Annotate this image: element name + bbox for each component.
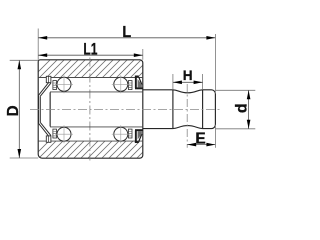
shaft bore surface bottom	[50, 126, 143, 128]
horizontal centerline	[30, 108, 221, 110]
stud shaft bottom line	[143, 128, 173, 130]
left end washer top anchor	[46, 76, 51, 82]
outer ring outline	[38, 60, 143, 158]
dimension L	[38, 37, 215, 39]
extension lines D	[10, 59, 39, 61]
outer ring raceway surface bottom	[38, 140, 142, 142]
seal spacer bottom-right	[128, 129, 132, 138]
svg-text:H: H	[183, 68, 193, 83]
dimension E	[187, 144, 215, 146]
groove vertical centerline	[186, 84, 188, 148]
seal spacer top-left	[53, 81, 57, 90]
roller cap boundary	[202, 90, 204, 129]
roller end cap	[203, 90, 216, 129]
svg-text:E: E	[195, 130, 205, 147]
ball top-left	[57, 77, 71, 91]
shaft bore surface top	[50, 91, 143, 93]
ball bottom-right	[114, 127, 128, 141]
roller concave body	[173, 90, 203, 129]
ball bottom-left	[57, 127, 71, 141]
svg-text:d: d	[234, 103, 251, 113]
dimension L1	[38, 54, 143, 56]
dimension H	[173, 81, 203, 83]
rubber seal top-right (black)	[135, 76, 137, 89]
outer ring raceway surface top	[38, 77, 142, 79]
svg-text:L: L	[122, 24, 131, 41]
seal spacer top-right	[128, 81, 132, 90]
bearing vertical centerline	[89, 58, 91, 161]
dimension d	[248, 90, 250, 129]
shaft end face	[49, 92, 51, 127]
left end washer bottom anchor	[46, 136, 51, 142]
extension line L right / E right	[214, 34, 216, 94]
ball top-right	[114, 77, 128, 91]
seal spacer bottom-left	[53, 129, 57, 138]
left end washer cone top	[39, 83, 51, 97]
hatch outer ring top band	[20, 50, 172, 90]
left end washer face	[39, 95, 41, 123]
left end washer cone bottom	[39, 122, 51, 135]
left washer lip edge	[49, 92, 51, 126]
extension line H right	[202, 74, 204, 90]
rubber seal bottom-right (black)	[135, 130, 137, 143]
svg-text:L1: L1	[83, 40, 97, 58]
extension line left (L,L1)	[37, 29, 39, 60]
dimension D	[18, 60, 20, 158]
hatch outer ring bottom band	[20, 130, 172, 170]
extension line L1 right	[142, 49, 144, 60]
stud shaft top line	[143, 89, 173, 91]
extension lines d	[216, 89, 256, 91]
svg-text:D: D	[5, 105, 22, 116]
extension line H left	[172, 74, 174, 90]
